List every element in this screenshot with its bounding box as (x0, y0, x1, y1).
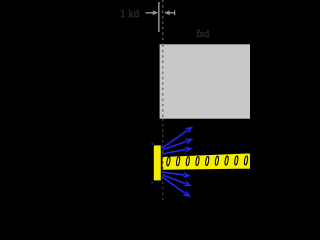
centerline segment above wall (162, 0, 164, 44)
coil loop 3 (186, 156, 190, 166)
svg-text:fsd: fsd (196, 28, 210, 40)
coil loop 1 (166, 157, 170, 167)
spray arrow bottom shallow (161, 172, 191, 179)
dimension arrow left (146, 10, 159, 15)
coil loop 7 (224, 156, 228, 166)
spray speck bottom-left of plate (151, 182, 153, 184)
coil loop 8 (234, 156, 238, 166)
coil loop 9 (244, 156, 248, 166)
coil loop 4 (195, 156, 199, 166)
spray arrow bottom middle (158, 173, 192, 186)
centerline segment over wall (162, 45, 164, 118)
spray arrow top middle (157, 139, 194, 153)
spray speck top-left of plate (151, 143, 153, 145)
extension line of wall face (158, 2, 160, 32)
svg-text:1 kd: 1 kd (120, 8, 140, 20)
centerline segment below rod (162, 171, 164, 200)
spray arrow top shallow (161, 147, 193, 155)
centerline segment over rod (162, 156, 164, 171)
spring rod (161, 153, 251, 171)
coil loop 5 (205, 156, 209, 166)
spray arrow bottom steep (158, 174, 191, 198)
piston plate (153, 145, 162, 182)
centerline segment wall to rod (162, 119, 164, 156)
spray arrow top steep (158, 126, 194, 151)
coil loop 6 (215, 156, 219, 166)
wall block (159, 44, 252, 120)
coil loop 2 (176, 156, 180, 166)
dimension arrow right (164, 10, 175, 15)
